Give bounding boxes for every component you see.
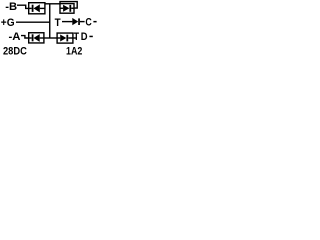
svg-text:T: T bbox=[74, 31, 80, 43]
svg-text:-B: -B bbox=[5, 1, 17, 13]
svg-text:D: D bbox=[81, 31, 88, 43]
svg-text:1A2: 1A2 bbox=[66, 45, 82, 57]
svg-text:+G: +G bbox=[1, 17, 15, 29]
svg-text:-A: -A bbox=[9, 31, 21, 43]
svg-text:T: T bbox=[55, 17, 61, 29]
svg-text:C: C bbox=[85, 17, 91, 29]
svg-text:28DC: 28DC bbox=[3, 45, 27, 57]
